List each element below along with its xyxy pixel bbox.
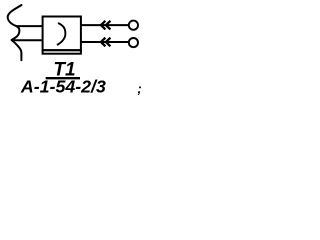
curved element ) inside box xyxy=(57,23,65,45)
box of device T1 xyxy=(43,17,81,51)
wire: bottom-right lead from box to terminal xyxy=(81,41,129,43)
flat base rectangle under box xyxy=(43,50,81,54)
wire: top-right lead from box to terminal xyxy=(81,24,129,26)
terminal circle bottom-right xyxy=(129,38,138,47)
cable squiggle (wavy lead-in line) xyxy=(8,5,22,60)
terminal circle top-right xyxy=(129,21,138,30)
svg-text:;: ; xyxy=(137,81,141,96)
svg-text:A-1-54-2/3: A-1-54-2/3 xyxy=(20,77,106,97)
wire: bottom-left lead from squiggle to box xyxy=(14,39,44,41)
background xyxy=(0,0,146,102)
chevron arrows on bottom-right wire xyxy=(101,38,111,47)
fraction bar under T1 xyxy=(46,77,80,79)
wire: top-left lead from squiggle to box xyxy=(16,25,44,27)
chevron arrows on top-right wire xyxy=(101,21,111,30)
